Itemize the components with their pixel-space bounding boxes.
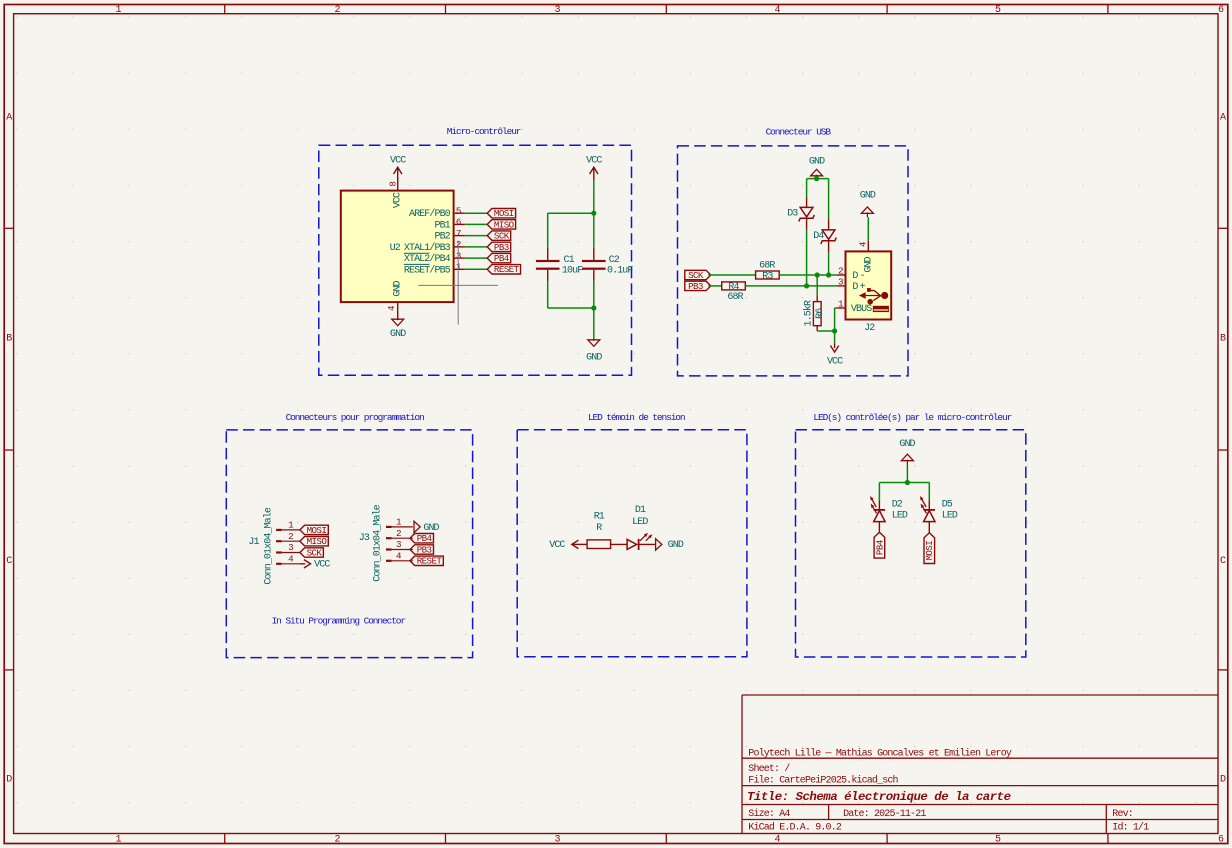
wire — [816, 275, 818, 296]
svg-text:2: 2 — [396, 528, 401, 539]
diode D3 (zener) — [787, 198, 814, 230]
svg-text:D-: D- — [852, 271, 866, 282]
svg-text:5: 5 — [995, 835, 1001, 846]
svg-text:Connecteurs pour programmation: Connecteurs pour programmation — [286, 412, 424, 423]
svg-text:A: A — [6, 113, 12, 124]
ic U2 right pins with numbers — [454, 206, 465, 273]
junction — [905, 480, 910, 485]
svg-text:5: 5 — [995, 5, 1001, 16]
svg-text:1: 1 — [115, 835, 121, 846]
power VCC (capacitors) — [586, 156, 602, 181]
svg-text:R: R — [596, 523, 602, 534]
svg-text:2: 2 — [288, 531, 293, 542]
svg-text:J1: J1 — [248, 537, 259, 548]
led D5 — [920, 496, 958, 532]
global label SCK (J1) — [300, 547, 323, 558]
svg-text:VCC: VCC — [393, 192, 404, 208]
svg-text:MISO: MISO — [307, 536, 328, 547]
resistor R6 — [802, 296, 825, 331]
svg-text:PB4: PB4 — [494, 253, 510, 264]
power VCC (LED left) — [549, 540, 587, 551]
svg-text:Polytech Lille — Mathias Gonca: Polytech Lille — Mathias Goncalves et Em… — [748, 748, 1012, 760]
svg-text:MOSI: MOSI — [307, 525, 327, 536]
svg-text:2: 2 — [838, 265, 843, 276]
svg-text:68R: 68R — [727, 292, 743, 303]
note box LED temoin de tension — [517, 412, 747, 657]
global label SCK — [487, 231, 510, 242]
power VCC (J1 pin4) — [300, 560, 330, 571]
svg-text:1.5kR: 1.5kR — [802, 300, 814, 326]
capacitor C2 — [582, 213, 633, 281]
power GND (J2 top) — [860, 190, 876, 217]
svg-text:D: D — [6, 775, 12, 786]
title block — [742, 695, 1218, 834]
svg-text:7: 7 — [456, 228, 461, 239]
wire — [828, 252, 830, 275]
svg-text:PB2: PB2 — [434, 232, 450, 243]
svg-text:MISO: MISO — [494, 219, 515, 230]
svg-text:RESET: RESET — [494, 264, 520, 275]
svg-text:1: 1 — [115, 5, 121, 16]
svg-text:D3: D3 — [787, 208, 798, 219]
wire — [879, 483, 929, 501]
wire — [817, 308, 837, 331]
svg-text:3: 3 — [554, 835, 560, 846]
svg-text:SCK: SCK — [494, 231, 510, 242]
svg-text:VCC: VCC — [549, 540, 565, 551]
svg-text:XTAL1/PB3: XTAL1/PB3 — [404, 242, 451, 254]
svg-text:GND: GND — [899, 439, 915, 450]
svg-text:Date: 2025-11-21: Date: 2025-11-21 — [843, 809, 926, 820]
svg-text:6: 6 — [456, 217, 461, 228]
svg-text:Size: A4: Size: A4 — [748, 808, 790, 820]
connector J1 — [248, 507, 300, 584]
cursor crosshair — [418, 241, 498, 325]
svg-text:LED(s) contrôlée(s) par le mic: LED(s) contrôlée(s) par le micro-contrôl… — [813, 412, 1011, 423]
svg-text:XTAL2/PB4: XTAL2/PB4 — [404, 253, 451, 265]
power VCC (USB bottom) — [827, 343, 843, 367]
diode D4 (zener) — [813, 219, 836, 253]
led D2 — [870, 496, 908, 532]
svg-text:10uF: 10uF — [562, 266, 583, 277]
svg-text:8: 8 — [387, 182, 398, 187]
svg-text:D: D — [1220, 775, 1226, 786]
power GND (J3 pin1) — [414, 521, 440, 534]
svg-text:File: CartePeiP2025.kicad_sch: File: CartePeiP2025.kicad_sch — [748, 774, 898, 786]
svg-text:In Situ Programming Connector: In Situ Programming Connector — [272, 615, 406, 626]
note box Connecteurs pour programmation — [226, 412, 472, 658]
svg-text:J2: J2 — [864, 323, 875, 334]
global label MOSI (J1) — [300, 525, 328, 536]
svg-text:A: A — [1220, 113, 1226, 124]
ic U2 body — [341, 191, 454, 303]
svg-text:Id: 1/1: Id: 1/1 — [1112, 822, 1149, 834]
wire — [465, 212, 487, 214]
wire — [834, 331, 836, 343]
global label PB3 (J3) — [410, 544, 433, 555]
power GND (leds top) — [899, 439, 915, 466]
wire — [779, 274, 837, 276]
wire — [465, 235, 487, 237]
wire — [906, 466, 908, 482]
wire — [593, 181, 595, 214]
svg-text:Sheet: /: Sheet: / — [748, 763, 790, 775]
svg-text:R6: R6 — [815, 308, 826, 319]
svg-text:C: C — [1220, 556, 1226, 567]
svg-text:6: 6 — [1218, 5, 1224, 16]
global label PB4 — [487, 253, 510, 264]
svg-text:B: B — [6, 334, 12, 345]
svg-text:D5: D5 — [942, 500, 953, 511]
svg-text:LED témoin de tension: LED témoin de tension — [588, 412, 685, 423]
svg-text:4: 4 — [774, 835, 780, 846]
svg-text:PB4: PB4 — [417, 533, 433, 544]
power GND (U2 bottom) — [386, 302, 406, 340]
svg-text:D2: D2 — [892, 500, 903, 511]
wire — [708, 285, 721, 287]
wire — [465, 246, 487, 248]
junction — [591, 305, 596, 310]
junction — [814, 176, 819, 181]
global label RESET — [487, 264, 520, 275]
led D1 — [627, 505, 656, 550]
junction — [591, 211, 596, 216]
svg-text:R1: R1 — [594, 511, 605, 522]
wire — [548, 281, 594, 308]
global label PB3 — [685, 281, 711, 292]
svg-text:MOSI: MOSI — [924, 541, 935, 561]
power GND (LED right) — [656, 539, 684, 552]
wire — [745, 285, 836, 287]
connector J3 — [359, 504, 413, 581]
connector J2 body — [846, 251, 892, 333]
svg-text:3: 3 — [288, 542, 293, 553]
svg-text:Rev:: Rev: — [1112, 809, 1133, 820]
svg-text:68R: 68R — [759, 260, 775, 271]
power GND (USB top) — [809, 157, 825, 179]
svg-text:3: 3 — [554, 5, 560, 16]
svg-text:2: 2 — [334, 835, 340, 846]
svg-text:SCK: SCK — [688, 270, 704, 281]
svg-text:GND: GND — [809, 157, 825, 168]
svg-text:RESET/PB5: RESET/PB5 — [404, 264, 451, 276]
global label RESET (J3) — [410, 556, 443, 567]
svg-text:AREF/PB0: AREF/PB0 — [409, 208, 451, 220]
wire — [465, 257, 487, 259]
svg-text:RESET: RESET — [417, 556, 443, 567]
svg-text:2: 2 — [334, 5, 340, 16]
resistor R1 — [587, 511, 627, 548]
global label MOSI (led D5) — [924, 533, 935, 564]
svg-text:SCK: SCK — [307, 547, 323, 558]
svg-text:U2: U2 — [390, 243, 401, 254]
svg-text:Title: Schema électronique de: Title: Schema électronique de la carte — [747, 790, 1011, 804]
svg-text:D+: D+ — [852, 282, 866, 293]
svg-text:VCC: VCC — [586, 156, 602, 167]
connector J2 pins — [837, 240, 869, 309]
svg-text:VCC: VCC — [314, 560, 330, 571]
usb icon (J2) — [859, 288, 889, 312]
junction — [804, 283, 809, 288]
svg-text:D4: D4 — [813, 231, 824, 242]
global label PB4 (J3) — [410, 533, 433, 544]
svg-text:PB3: PB3 — [494, 242, 509, 253]
wire — [465, 223, 487, 225]
svg-text:C: C — [6, 556, 12, 567]
svg-text:GND: GND — [586, 353, 602, 364]
svg-text:Conn_01x04_Male: Conn_01x04_Male — [262, 507, 274, 584]
svg-text:C2: C2 — [609, 255, 620, 266]
svg-text:PB1: PB1 — [434, 220, 450, 231]
svg-text:PB4: PB4 — [874, 539, 885, 555]
svg-text:LED: LED — [632, 517, 648, 528]
global label SCK — [685, 270, 711, 281]
svg-text:PB3: PB3 — [417, 544, 432, 555]
svg-text:J3: J3 — [359, 533, 370, 544]
global label PB3 — [487, 242, 510, 253]
global label MOSI — [487, 208, 515, 219]
svg-text:0.1uF: 0.1uF — [607, 266, 633, 277]
svg-text:VBUS: VBUS — [851, 304, 872, 315]
svg-text:B: B — [1220, 333, 1226, 344]
svg-text:3: 3 — [838, 276, 843, 287]
svg-text:VCC: VCC — [390, 156, 406, 167]
svg-text:GND: GND — [393, 280, 404, 296]
global label PB4 (led D2) — [874, 532, 885, 558]
svg-text:GND: GND — [390, 329, 406, 340]
svg-text:R3: R3 — [762, 271, 773, 282]
svg-text:LED: LED — [942, 510, 958, 521]
wire — [593, 281, 595, 340]
svg-text:D1: D1 — [635, 505, 646, 516]
svg-text:Connecteur USB: Connecteur USB — [766, 127, 832, 138]
wire — [708, 274, 755, 276]
svg-text:C1: C1 — [564, 255, 575, 266]
wire — [867, 217, 869, 240]
junction — [832, 328, 837, 333]
wire — [806, 230, 808, 286]
global label MISO (J1) — [300, 536, 328, 547]
svg-text:3: 3 — [396, 539, 401, 550]
power GND (capacitors) — [586, 340, 602, 364]
capacitor C1 — [536, 248, 583, 282]
svg-text:6: 6 — [1218, 835, 1224, 846]
wire — [548, 213, 594, 248]
svg-text:Conn_01x04_Male: Conn_01x04_Male — [372, 504, 384, 581]
note box Connecteur USB — [678, 127, 909, 376]
resistor R4 — [722, 282, 746, 303]
svg-text:GND: GND — [668, 540, 684, 551]
svg-text:MOSI: MOSI — [494, 208, 514, 219]
svg-text:KiCad E.D.A. 9.0.2: KiCad E.D.A. 9.0.2 — [748, 822, 842, 834]
wire — [465, 268, 487, 270]
svg-text:PB3: PB3 — [688, 281, 703, 292]
svg-text:LED: LED — [892, 510, 908, 521]
note text In Situ Programming Connector — [272, 615, 406, 626]
note box LED(s) controlee(s) — [796, 412, 1026, 657]
power VCC (U2 top) — [387, 156, 406, 191]
wire — [807, 179, 829, 219]
svg-text:GND: GND — [860, 190, 876, 201]
svg-text:VCC: VCC — [827, 356, 843, 367]
svg-text:Micro-contrôleur: Micro-contrôleur — [447, 126, 521, 137]
note box Micro-controleur — [319, 126, 632, 375]
resistor R3 — [756, 260, 780, 282]
svg-text:5: 5 — [456, 206, 461, 217]
global label MISO — [487, 219, 515, 230]
svg-text:4: 4 — [774, 5, 780, 16]
junction — [815, 272, 832, 277]
